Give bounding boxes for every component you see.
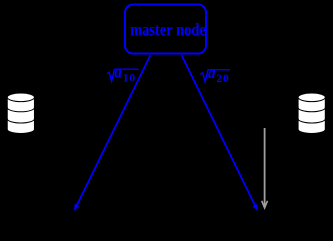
radical sqrt left xyxy=(107,69,139,81)
database cylinder right xyxy=(298,93,325,133)
cylinder separator arc 1 right xyxy=(298,108,325,112)
cylinder separator arc 2 right xyxy=(298,119,325,123)
svg-text:a: a xyxy=(208,64,216,82)
edge label sqrt(a_10) xyxy=(107,64,139,85)
edge label sqrt(a_20) xyxy=(200,64,230,85)
cylinder body left xyxy=(7,97,34,133)
svg-text:a: a xyxy=(114,64,122,82)
cylinder separator arc 1 left xyxy=(7,108,34,112)
cylinder separator arc 2 left xyxy=(7,119,34,123)
wire master to worker2 (right edge) xyxy=(182,55,256,206)
cylinder top ellipse left xyxy=(7,93,34,102)
database cylinder left xyxy=(7,93,34,134)
master node box xyxy=(125,5,206,54)
cylinder top ellipse right xyxy=(298,93,325,102)
arrowhead right edge xyxy=(253,204,258,211)
wire master to worker1 (left edge) xyxy=(77,55,151,205)
cylinder body right xyxy=(298,97,325,133)
radical sqrt right xyxy=(200,70,230,82)
gray arrowhead xyxy=(262,201,268,208)
svg-text:master node: master node xyxy=(130,21,206,39)
gray arrow shaft xyxy=(264,128,266,207)
svg-text:10: 10 xyxy=(123,73,136,85)
arrowhead left edge xyxy=(74,204,79,211)
svg-text:20: 20 xyxy=(216,73,229,85)
